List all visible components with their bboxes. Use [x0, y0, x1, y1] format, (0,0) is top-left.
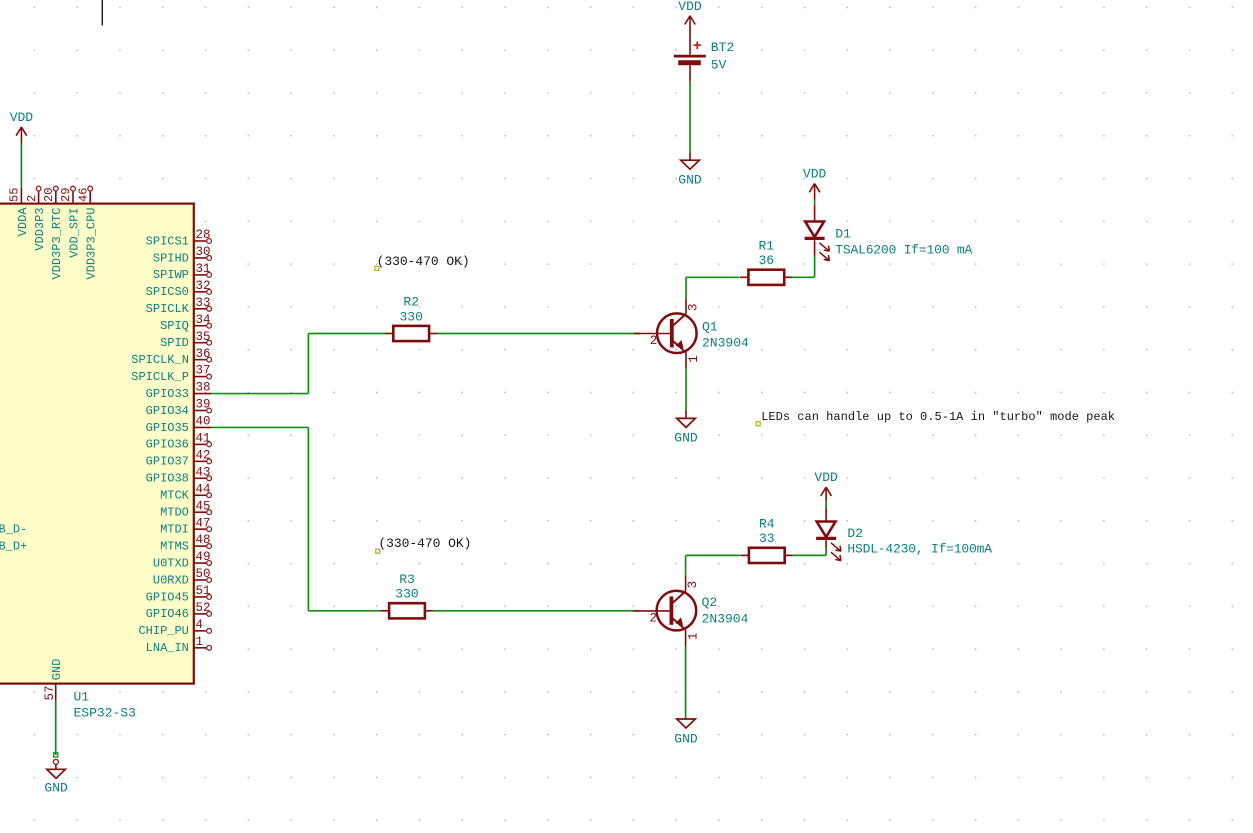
- svg-text:HSDL-4230, If=100mA: HSDL-4230, If=100mA: [847, 542, 992, 557]
- svg-text:LNA_IN: LNA_IN: [146, 641, 189, 655]
- svg-text:52: 52: [196, 601, 211, 615]
- svg-text:(330-470 OK): (330-470 OK): [378, 536, 471, 551]
- svg-text:1: 1: [196, 635, 204, 649]
- svg-text:2N3904: 2N3904: [702, 335, 749, 350]
- svg-text:MTCK: MTCK: [160, 489, 190, 503]
- svg-text:2: 2: [649, 612, 657, 626]
- svg-text:GPIO45: GPIO45: [146, 590, 189, 604]
- svg-text:SPICLK_P: SPICLK_P: [131, 370, 189, 384]
- svg-text:VDD: VDD: [10, 110, 34, 125]
- svg-text:2: 2: [25, 195, 39, 202]
- svg-text:35: 35: [196, 330, 211, 344]
- svg-text:+: +: [693, 38, 702, 55]
- svg-text:330: 330: [395, 587, 418, 602]
- svg-text:45: 45: [196, 499, 211, 513]
- svg-text:SPICS0: SPICS0: [146, 285, 189, 299]
- svg-text:GND: GND: [50, 659, 64, 681]
- svg-text:SPIWP: SPIWP: [153, 268, 189, 282]
- svg-text:GPIO38: GPIO38: [146, 472, 189, 486]
- svg-text:29: 29: [59, 188, 73, 202]
- svg-text:U0RXD: U0RXD: [153, 573, 189, 587]
- svg-text:MTMS: MTMS: [160, 539, 189, 553]
- svg-text:41: 41: [196, 432, 211, 446]
- svg-text:49: 49: [196, 550, 211, 564]
- svg-text:57: 57: [43, 685, 57, 700]
- svg-text:SPIHD: SPIHD: [153, 251, 189, 265]
- svg-text:39: 39: [196, 398, 211, 412]
- svg-text:48: 48: [196, 533, 211, 547]
- svg-text:37: 37: [196, 364, 211, 378]
- svg-text:USB_D-: USB_D-: [0, 522, 27, 536]
- svg-text:3: 3: [686, 303, 700, 311]
- svg-text:VDD: VDD: [814, 470, 838, 485]
- svg-text:50: 50: [196, 567, 211, 581]
- svg-text:20: 20: [42, 188, 56, 202]
- svg-text:47: 47: [196, 516, 211, 530]
- svg-text:SPID: SPID: [160, 336, 189, 350]
- svg-text:43: 43: [196, 465, 211, 479]
- svg-text:38: 38: [196, 381, 211, 395]
- svg-text:1: 1: [687, 355, 701, 363]
- svg-text:51: 51: [196, 584, 211, 598]
- svg-text:D2: D2: [847, 526, 863, 541]
- svg-text:CHIP_PU: CHIP_PU: [138, 624, 188, 638]
- svg-text:VDDA: VDDA: [16, 207, 30, 237]
- svg-text:SPICLK: SPICLK: [146, 302, 190, 316]
- svg-text:VDD_SPI: VDD_SPI: [67, 208, 81, 258]
- svg-text:Q2: Q2: [702, 595, 718, 610]
- svg-text:2N3904: 2N3904: [702, 611, 749, 626]
- svg-text:(330-470 OK): (330-470 OK): [377, 254, 470, 269]
- svg-text:4: 4: [196, 618, 204, 632]
- svg-text:R1: R1: [758, 238, 774, 253]
- svg-text:55: 55: [8, 188, 22, 202]
- svg-text:LEDs can handle up to 0.5-1A i: LEDs can handle up to 0.5-1A in "turbo" …: [761, 410, 1115, 424]
- svg-text:40: 40: [196, 415, 211, 429]
- svg-text:2: 2: [650, 334, 658, 348]
- svg-text:33: 33: [196, 296, 211, 310]
- svg-text:TSAL6200 If=100 mA: TSAL6200 If=100 mA: [835, 242, 972, 257]
- svg-text:34: 34: [196, 313, 211, 327]
- svg-text:33: 33: [759, 531, 775, 546]
- svg-text:GPIO34: GPIO34: [146, 404, 189, 418]
- svg-text:Q1: Q1: [702, 319, 718, 334]
- svg-text:30: 30: [196, 245, 211, 259]
- svg-text:MTDI: MTDI: [160, 522, 189, 536]
- svg-text:32: 32: [196, 279, 211, 293]
- svg-text:R2: R2: [403, 295, 419, 310]
- svg-text:MTDO: MTDO: [160, 506, 189, 520]
- svg-text:36: 36: [196, 347, 211, 361]
- svg-text:GPIO33: GPIO33: [146, 387, 189, 401]
- svg-text:USB_D+: USB_D+: [0, 539, 27, 553]
- svg-text:GND: GND: [674, 431, 698, 446]
- svg-text:28: 28: [196, 228, 211, 242]
- svg-text:31: 31: [196, 262, 211, 276]
- svg-text:GND: GND: [678, 173, 702, 188]
- svg-text:VDD: VDD: [803, 167, 827, 182]
- svg-text:R3: R3: [399, 572, 415, 587]
- svg-text:GPIO36: GPIO36: [146, 438, 189, 452]
- svg-text:46: 46: [76, 188, 90, 202]
- svg-text:BT2: BT2: [711, 40, 734, 55]
- svg-text:VDD: VDD: [678, 0, 702, 14]
- svg-text:SPICS1: SPICS1: [146, 234, 189, 248]
- svg-text:D1: D1: [835, 226, 851, 241]
- svg-text:GND: GND: [44, 781, 68, 796]
- svg-text:ESP32-S3: ESP32-S3: [74, 705, 136, 720]
- svg-text:GPIO46: GPIO46: [146, 607, 189, 621]
- svg-text:GPIO37: GPIO37: [146, 455, 189, 469]
- svg-text:VDD3P3: VDD3P3: [33, 208, 47, 251]
- svg-text:VDD3P3_CPU: VDD3P3_CPU: [85, 208, 99, 280]
- svg-text:42: 42: [196, 448, 211, 462]
- svg-text:GPIO35: GPIO35: [146, 421, 189, 435]
- svg-text:1: 1: [687, 633, 701, 641]
- svg-text:GND: GND: [674, 731, 698, 746]
- svg-text:3: 3: [686, 581, 700, 589]
- svg-text:SPICLK_N: SPICLK_N: [131, 353, 189, 367]
- svg-text:5V: 5V: [711, 57, 727, 72]
- svg-text:R4: R4: [759, 516, 775, 531]
- svg-text:36: 36: [758, 253, 774, 268]
- svg-text:330: 330: [399, 309, 422, 324]
- svg-text:SPIQ: SPIQ: [160, 319, 189, 333]
- svg-text:U1: U1: [74, 689, 90, 704]
- svg-text:44: 44: [196, 482, 211, 496]
- svg-text:U0TXD: U0TXD: [153, 556, 189, 570]
- svg-text:VDD3P3_RTC: VDD3P3_RTC: [50, 208, 64, 280]
